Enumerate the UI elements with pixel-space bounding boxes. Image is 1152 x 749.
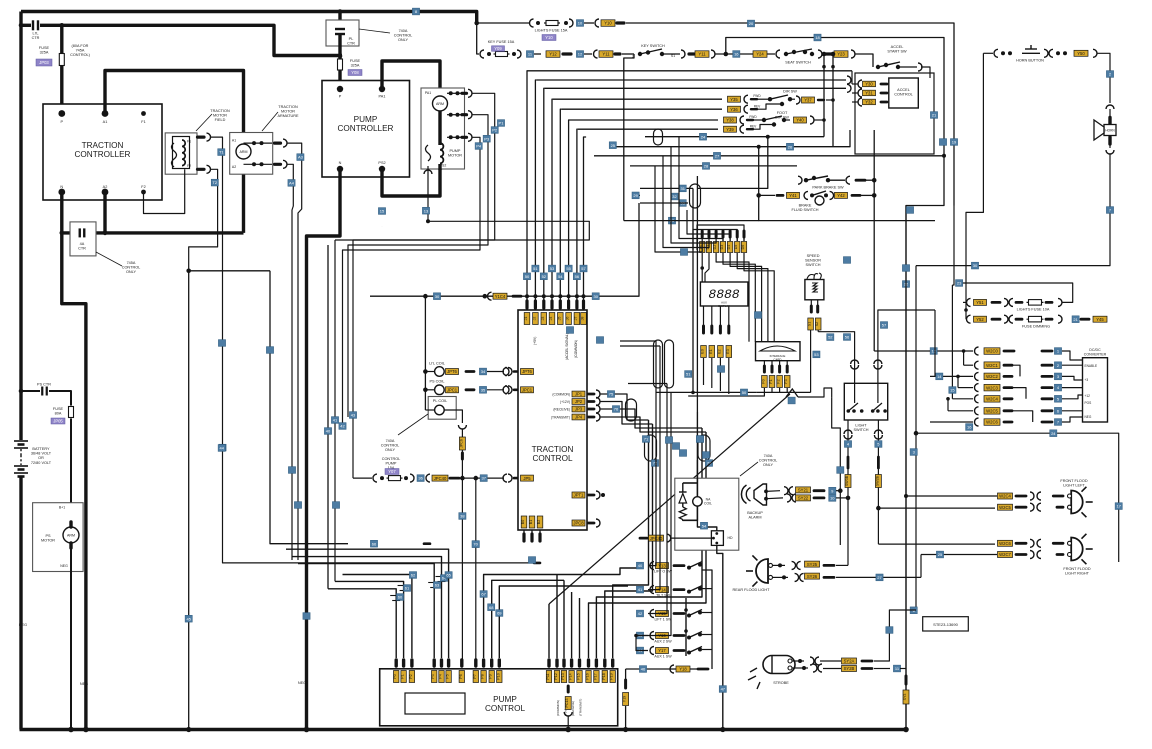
pin key switch a	[638, 52, 642, 56]
contact park brake out	[846, 176, 850, 184]
svg-text:P12: P12	[554, 673, 558, 679]
pin sw 1	[687, 590, 691, 594]
svg-text:69: 69	[497, 611, 502, 616]
connector leg b	[875, 475, 881, 488]
wire display pin 4	[729, 237, 731, 241]
node traction top pin 6	[575, 294, 579, 298]
wire display feed 5	[693, 230, 737, 251]
svg-text:LIFT O SW: LIFT O SW	[654, 570, 673, 574]
svg-text:ARM: ARM	[436, 102, 444, 106]
cable sw 1	[674, 588, 684, 591]
pin accel sw a	[876, 65, 880, 69]
contact light a2	[851, 365, 859, 369]
contact seat out	[818, 50, 822, 58]
contact seat in	[776, 50, 780, 58]
contact stack 1	[975, 361, 979, 369]
wire traction P riser	[60, 25, 63, 114]
contact litl	[508, 368, 512, 376]
svg-text:J2: J2	[532, 317, 536, 321]
pin dir sw c	[788, 97, 792, 101]
wire light leg a	[847, 420, 849, 565]
wire seat drop b	[832, 54, 834, 147]
wire backup a out	[836, 490, 840, 492]
svg-text:12: 12	[931, 349, 936, 354]
cable stack r5	[1004, 397, 1012, 400]
wire pump P feed	[338, 12, 341, 28]
pin key switch b	[646, 50, 650, 54]
connector display pin 5	[734, 242, 740, 253]
contact leg b2	[874, 435, 882, 439]
armature motor traction	[236, 144, 251, 159]
node field F2 branch	[186, 269, 191, 274]
wire sw feed 4	[636, 392, 671, 635]
svg-text:P17: P17	[593, 673, 597, 679]
pin bf a	[810, 193, 814, 197]
svg-text:P5: P5	[446, 674, 450, 678]
svg-text:54: 54	[702, 523, 707, 528]
wire number sw 2	[636, 610, 643, 617]
connector traction top pin 3	[549, 313, 555, 325]
light switch contacts	[847, 383, 887, 413]
svg-text:F3: F3	[784, 379, 788, 383]
wire bundle b1	[327, 245, 329, 589]
contact lights row	[530, 19, 534, 27]
pin tip traction top 7	[582, 301, 585, 308]
wire number light b	[880, 322, 887, 329]
contact accel 1	[858, 89, 862, 97]
svg-text:NEG: NEG	[1085, 415, 1092, 419]
wire number tc r1	[607, 391, 614, 398]
node pump neg bus	[304, 727, 310, 733]
node strobe neg bus	[565, 727, 571, 733]
wire key branch up	[726, 38, 944, 730]
connector bf a	[787, 192, 800, 198]
wire x954 drop3	[952, 206, 954, 286]
contact JPT1	[596, 491, 600, 499]
svg-text:STE23-13690: STE23-13690	[933, 622, 958, 627]
wire foot fwd to sw	[753, 119, 764, 121]
wire ps ctr row	[21, 390, 40, 392]
wire row 188 ext	[697, 137, 768, 189]
wire pump field tap down	[334, 240, 336, 581]
svg-text:10: 10	[830, 496, 835, 501]
litl coil circle	[435, 367, 445, 377]
contact strobe b2	[818, 664, 822, 672]
pin tip speed b	[816, 306, 819, 312]
svg-text:75: 75	[609, 392, 614, 397]
wire number speed2	[813, 351, 820, 358]
pin sw 2	[687, 614, 691, 618]
contact flood r b1	[1030, 551, 1034, 559]
PL CTR box	[326, 20, 359, 46]
svg-text:Y1C4: Y1C4	[495, 294, 506, 299]
svg-text:51: 51	[533, 266, 538, 271]
contact lamp left a	[1068, 494, 1072, 498]
wire tc right transmit	[600, 417, 640, 421]
contact sw 4	[650, 647, 654, 655]
wire key sw out	[662, 53, 680, 55]
svg-text:F1: F1	[141, 120, 145, 124]
wire row 155	[594, 155, 944, 157]
pin tip pump 6	[460, 660, 463, 666]
svg-text:(+12V): (+12V)	[560, 400, 570, 404]
wire brush row2	[244, 163, 273, 165]
wire pump pin s1	[461, 530, 463, 658]
terminal PA1 pump	[379, 86, 385, 92]
pin tip interface 1	[771, 366, 774, 372]
svg-text:PA1: PA1	[379, 95, 386, 99]
wire f2 continue	[188, 271, 190, 730]
connector flood l b	[998, 504, 1013, 510]
wire disp bottom 2	[719, 306, 721, 330]
svg-text:PARK BRAKE SW: PARK BRAKE SW	[812, 186, 844, 190]
contact key row d	[594, 50, 598, 58]
wire pump contact1 down	[353, 93, 495, 478]
wire key to seat	[715, 53, 775, 55]
wire interface bottom 2	[779, 361, 781, 371]
cable backup b	[814, 496, 824, 499]
svg-text:27: 27	[715, 153, 720, 158]
wire tc pair down d	[640, 421, 706, 432]
svg-text:36: 36	[418, 476, 423, 481]
splice m2	[436, 577, 448, 582]
svg-text:A1: A1	[103, 120, 108, 124]
wire pl coil right	[444, 410, 462, 423]
wire disp row383	[628, 383, 667, 385]
wire traction top pin 4	[559, 296, 561, 304]
wire number b2	[331, 417, 338, 424]
contact strobe a	[788, 659, 792, 663]
wire number b3	[339, 423, 346, 430]
pin tip pump 8	[482, 660, 485, 666]
contact lights row c	[595, 19, 599, 27]
wire bundle key 4	[559, 109, 562, 296]
svg-text:ARM: ARM	[240, 150, 248, 154]
svg-text:FWD: FWD	[749, 115, 757, 119]
connector Y10A	[601, 20, 615, 27]
capacitor tip LI'L CTR	[33, 20, 38, 30]
wire row 30	[370, 203, 639, 296]
fuse 325A pump	[338, 57, 343, 72]
wire x906 lower2	[905, 684, 907, 690]
wire pump pin s2	[475, 530, 477, 658]
cable stack r7	[1004, 421, 1012, 424]
wire rear flood a out	[836, 564, 848, 566]
wire stack r6 link	[1012, 411, 1033, 422]
wire number horn1	[1106, 71, 1113, 78]
pin tip pump 1	[402, 660, 405, 666]
wire dcdc p4	[1062, 387, 1083, 389]
cable right (COMMON)	[588, 393, 594, 396]
pin tip interface 3	[786, 366, 789, 372]
svg-text:B+1: B+1	[59, 506, 65, 510]
wire stack r4 link	[1012, 388, 1026, 399]
svg-text:(COMMON): (COMMON)	[574, 340, 578, 358]
aux display box	[700, 282, 748, 306]
traction control box	[518, 310, 587, 530]
cable dcdc 5	[1042, 409, 1052, 412]
brush dot a1	[252, 141, 256, 145]
wire number l1	[396, 594, 403, 601]
wire row 203	[640, 202, 688, 204]
terminal N traction	[58, 189, 65, 196]
wire A1 to armature	[105, 71, 244, 144]
node seat drop b2	[831, 65, 835, 69]
wire armature bottom contact down	[288, 164, 294, 560]
svg-text:NEG: NEG	[60, 564, 68, 568]
svg-text:34: 34	[481, 369, 486, 374]
wire number 203	[679, 200, 686, 207]
svg-text:SY3: SY3	[903, 694, 907, 701]
contact accel 2	[858, 98, 862, 106]
wire flood return	[1118, 544, 1120, 577]
wire number sw 1	[636, 586, 643, 593]
pin sw 0	[687, 566, 691, 570]
svg-text:42: 42	[340, 424, 345, 429]
wire x270 row	[189, 270, 270, 272]
wire row dir rev	[561, 108, 722, 110]
svg-text:FUSE325A: FUSE325A	[350, 59, 361, 68]
svg-text:19: 19	[952, 140, 957, 145]
contact strobe b1	[813, 664, 817, 672]
contact horn mid2	[1049, 49, 1053, 57]
wire number rear flood	[876, 574, 883, 581]
wire strobe a	[792, 660, 804, 662]
wire 220 left	[624, 220, 759, 222]
connector pump pin 7	[473, 671, 479, 683]
svg-text:F2: F2	[141, 185, 145, 189]
wire number dcdc 4	[1054, 395, 1061, 402]
wire number extra 23	[902, 265, 909, 272]
wire sw return drop2	[625, 706, 627, 730]
wire light sw feed b	[877, 345, 879, 383]
svg-text:Y08: Y08	[351, 70, 359, 75]
svg-text:JPC6: JPC6	[459, 439, 463, 448]
node disp junction a	[700, 266, 704, 270]
dcdc converter box	[1083, 358, 1108, 422]
svg-text:A3: A3	[298, 155, 304, 160]
cable dim a	[992, 318, 1000, 321]
svg-text:PC13: PC13	[565, 699, 569, 708]
cable flood r a	[1053, 542, 1063, 545]
wire strobe a out2	[874, 610, 916, 661]
wire key row to switch	[622, 53, 634, 55]
contact flood l b1	[1030, 503, 1034, 511]
wire number sw 3	[636, 632, 643, 639]
svg-text:56: 56	[845, 335, 850, 340]
pin tip pump 12	[555, 660, 558, 666]
wire number F2 wire	[211, 179, 218, 186]
wire number extra 6	[288, 467, 295, 474]
svg-text:42: 42	[638, 611, 643, 616]
node bf feed	[756, 193, 761, 198]
connector stack 5	[984, 408, 1000, 415]
contact ctl pump	[508, 474, 512, 482]
svg-text:D5: D5	[734, 245, 738, 250]
wire number dcdc 0	[1054, 348, 1061, 355]
node row30 coil	[423, 294, 428, 299]
svg-text:(RECEIVE): (RECEIVE)	[553, 407, 570, 411]
fuse lights 10A	[1027, 300, 1044, 306]
traction motor field box	[165, 133, 197, 174]
wire number dcdc 3	[1054, 384, 1061, 391]
wire row c	[545, 87, 846, 89]
wire JPC8 out	[600, 523, 636, 538]
speed sensor box	[805, 280, 824, 300]
contact backup a2	[789, 487, 793, 495]
wire number leg a	[844, 441, 851, 448]
connector stack 4	[984, 396, 1000, 403]
wire number pairL2	[651, 460, 658, 467]
wire bundle key 6	[576, 129, 579, 296]
wire na top link	[683, 482, 698, 484]
contact pump side	[564, 712, 572, 716]
pin tip pump 19	[611, 660, 614, 666]
connector bf b	[835, 192, 848, 198]
svg-text:50: 50	[742, 390, 747, 395]
svg-text:FOOTDIR SW: FOOTDIR SW	[775, 111, 789, 120]
wire stack row2 drop	[963, 351, 965, 365]
pump controller box	[322, 81, 410, 178]
wire pump pin m3	[286, 549, 449, 658]
connector accel 0	[863, 81, 876, 87]
svg-text:61: 61	[405, 586, 410, 591]
connector pin field F2	[198, 168, 205, 171]
cable flood r c	[1016, 542, 1026, 545]
wire traction top pin 6	[576, 296, 578, 304]
connector speed a	[808, 318, 814, 330]
contact flood l a2	[1037, 492, 1041, 500]
contact light a	[851, 360, 859, 364]
cable litl out	[466, 370, 474, 373]
wire stack row2 left	[964, 364, 973, 366]
wire key row feed	[477, 23, 479, 54]
svg-text:B2: B2	[537, 520, 541, 524]
contact horn a	[994, 49, 998, 57]
svg-text:21: 21	[932, 113, 937, 118]
wire disp bundle 4	[744, 253, 774, 341]
pin tip traction top 1	[534, 301, 537, 308]
contact l10 a	[967, 298, 971, 306]
wire dir sw out	[790, 98, 795, 100]
pin sw 2b	[698, 611, 702, 615]
connector pump pin 19	[610, 671, 616, 683]
contact pump field tap	[424, 170, 432, 174]
pin tip display 1	[708, 231, 711, 237]
ps coil circle	[435, 385, 445, 395]
node traction top pin 5	[567, 294, 571, 298]
wire leg b row508	[878, 507, 995, 509]
cable litl	[514, 370, 517, 373]
wire x906 segment	[905, 206, 907, 669]
switch blade seat	[786, 49, 812, 54]
wire x916 drop	[915, 266, 917, 610]
svg-text:W2C1: W2C1	[986, 363, 998, 368]
wire backup a	[766, 490, 780, 493]
svg-text:Y50: Y50	[1077, 51, 1085, 56]
svg-text:25: 25	[938, 552, 943, 557]
svg-text:56: 56	[575, 274, 580, 279]
wire number pairR1	[696, 436, 703, 443]
pin key fuse a	[487, 52, 491, 56]
svg-text:26: 26	[788, 144, 793, 149]
connector JPC40	[432, 475, 448, 481]
wire dcdc p6	[1062, 410, 1083, 412]
contact JPC8	[596, 519, 600, 527]
wire tc pair down a	[627, 401, 649, 420]
node traction top pin 3	[550, 294, 554, 298]
cable stack r6	[1004, 409, 1012, 412]
pin tip pump 2	[410, 660, 413, 666]
svg-text:Y12: Y12	[549, 52, 557, 57]
svg-text:NEG: NEG	[80, 682, 88, 686]
wire number x190	[185, 615, 192, 622]
wire number 18	[814, 34, 821, 41]
wire number horn3	[971, 262, 978, 269]
wire number extra 0	[303, 613, 310, 620]
svg-text:55: 55	[566, 266, 571, 271]
svg-text:B1: B1	[529, 520, 533, 524]
wire pump contact3 down	[343, 137, 481, 426]
splice l2	[398, 586, 410, 591]
node f2 bus	[186, 727, 191, 732]
svg-text:E1: E1	[709, 349, 713, 353]
wire bundle key 2	[543, 88, 546, 296]
switch blade 3	[689, 632, 702, 638]
node leg b 508	[876, 506, 881, 511]
pin foot sw c	[782, 118, 786, 122]
wire interface out left	[688, 392, 764, 396]
svg-text:40: 40	[326, 429, 331, 434]
wire disp bottom b 2	[719, 358, 721, 391]
wire tc right 12v	[600, 402, 622, 407]
svg-text:D2: D2	[713, 245, 717, 250]
cable dcdc 6	[1042, 421, 1052, 424]
label purple JP03	[36, 59, 52, 66]
node light feed	[877, 309, 879, 311]
wire display feed 6	[697, 225, 744, 250]
pin seat b	[792, 50, 796, 54]
connector dim a	[974, 316, 987, 322]
svg-text:Y36: Y36	[730, 107, 738, 112]
wire pump pin f4	[571, 592, 573, 658]
fuse dimming	[1027, 316, 1044, 322]
wire number bundle 2	[540, 273, 547, 280]
svg-text:SY26: SY26	[807, 574, 818, 579]
wire pump pin f2	[556, 574, 558, 658]
wire disp b	[705, 253, 709, 282]
svg-text:32: 32	[672, 194, 677, 199]
wire number 195	[671, 193, 678, 200]
wire number stack3	[936, 373, 943, 380]
node seat branch b	[831, 52, 836, 57]
contact l10 d	[1058, 298, 1062, 306]
node seat branch a	[822, 52, 827, 57]
svg-text:SY25: SY25	[807, 562, 818, 567]
wire disp row346	[620, 345, 660, 347]
wire speed join	[757, 391, 811, 393]
wire display feed 4	[687, 210, 730, 241]
connector pump pin 5	[446, 671, 452, 683]
svg-text:30: 30	[973, 263, 978, 268]
node sw aux link	[634, 634, 638, 638]
connector traction bottom pin 0	[521, 516, 527, 528]
node ps ctr junction	[19, 389, 24, 394]
wire number x270	[218, 445, 225, 452]
wire backup b	[766, 497, 783, 500]
connector pump pin 16	[586, 671, 592, 683]
pin horn a	[1001, 51, 1005, 55]
